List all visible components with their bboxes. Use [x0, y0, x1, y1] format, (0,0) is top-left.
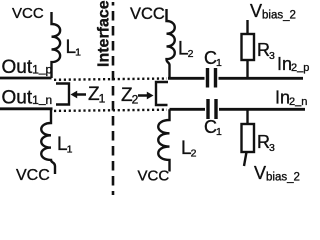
resistor R3 (bottom) lead upper [246, 109, 248, 124]
capacitor C1 (top) [208, 68, 216, 88]
svg-text:VCC: VCC [16, 167, 50, 184]
inductor L2 (top right) [167, 9, 175, 78]
wire Out1_n [0, 107, 53, 110]
port bracket Z2 (looking right) [156, 82, 168, 105]
dotted interface cut (bottom row) [54, 110, 167, 111]
wire from C1 to In2_p [219, 77, 304, 80]
svg-text:VCC: VCC [130, 5, 165, 23]
dashed interface line [112, 2, 115, 195]
resistor R3 (top) lead lower [246, 60, 248, 78]
wire top right row [168, 77, 205, 80]
wire bottom right row [170, 108, 206, 111]
svg-text:VCC: VCC [12, 5, 44, 22]
wire from C1 to In2_n [219, 108, 305, 111]
arrow Z2 [138, 94, 147, 97]
arrow Z1 [77, 93, 86, 96]
inductor L1 (top left) [52, 12, 61, 78]
capacitor C1 (bottom) [208, 99, 216, 119]
svg-text:Interface: Interface [96, 0, 113, 67]
svg-text:VCC: VCC [138, 168, 170, 185]
resistor R3 (top) lead upper [246, 20, 248, 34]
wire Out1_p [0, 77, 52, 80]
resistor R3 (bottom) body [242, 124, 255, 152]
inductor L1 (bottom left) [41, 109, 55, 174]
inductor L2 (bottom right) [158, 109, 169, 171]
dotted interface cut (top row) [54, 79, 167, 80]
resistor R3 (bottom) lead lower [244, 152, 247, 166]
port bracket Z1 (looking left) [56, 84, 69, 105]
resistor R3 (top) body [242, 34, 255, 60]
